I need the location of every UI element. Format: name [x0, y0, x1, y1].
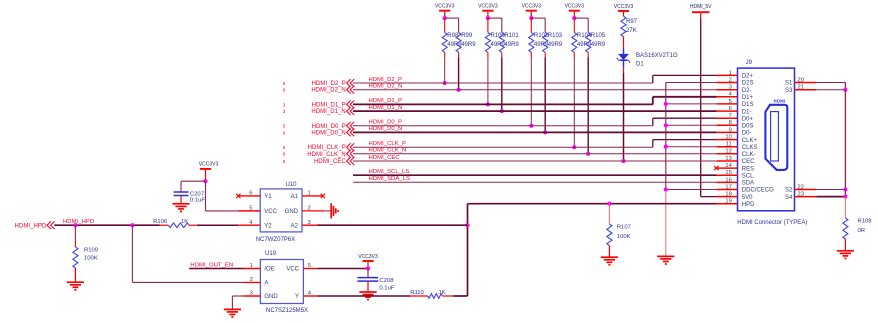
svg-text:NC7SZ125M5X: NC7SZ125M5X [266, 308, 308, 314]
port HDMI_D1_N [283, 107, 354, 115]
svg-text:VCC3V3: VCC3V3 [435, 4, 455, 10]
resistor R107 100K [607, 204, 631, 257]
ground U10 GND [331, 203, 338, 218]
svg-text:SDA: SDA [742, 181, 754, 187]
svg-text:HDMI_D0_N: HDMI_D0_N [369, 126, 403, 132]
wire HDMI_HPD [54, 224, 159, 226]
wire HDMI_D2_N net [353, 89, 717, 91]
junction shield bus pin 5 [664, 102, 668, 106]
svg-text:6: 6 [283, 130, 286, 135]
port HDMI_D1_P [283, 101, 354, 109]
svg-text:CLK+: CLK+ [742, 138, 758, 144]
svg-text:HDMI_CLK_P: HDMI_CLK_P [369, 141, 407, 147]
svg-text:U19: U19 [265, 251, 277, 257]
wire HDMI_CEC net [353, 160, 717, 162]
svg-text:6: 6 [283, 152, 286, 157]
wire HDMI_CLK_N net [353, 153, 717, 155]
svg-text:VCC3V3: VCC3V3 [614, 4, 634, 10]
svg-text:R97: R97 [626, 19, 638, 25]
svg-text:HDMI_SDA_LS: HDMI_SDA_LS [369, 176, 410, 182]
wire U10 GND [302, 210, 331, 212]
wire VCC to C207 [181, 181, 206, 192]
svg-text:/OE: /OE [264, 267, 274, 273]
svg-text:D2-: D2- [742, 88, 752, 94]
wire pin23 [816, 190, 845, 197]
ground R107 [601, 257, 618, 265]
ground R109 [67, 282, 84, 290]
ground shield bus [657, 256, 674, 264]
svg-text:D2S: D2S [742, 81, 754, 87]
junction at top of R98 [443, 16, 447, 20]
junction D1-CEC [621, 159, 625, 163]
wire pin20 to bus [816, 83, 845, 90]
resistor R101 49R9 [499, 33, 519, 112]
svg-text:Y1: Y1 [264, 194, 272, 200]
resistor R109 100K [73, 225, 98, 282]
wire shield bus [666, 83, 717, 257]
svg-text:HDMI_5V: HDMI_5V [690, 4, 712, 10]
no-connect X U10 pin1 [302, 194, 325, 198]
wire U10 A2 out [302, 224, 468, 226]
svg-text:BAS16XV2T1G: BAS16XV2T1G [636, 53, 678, 59]
svg-text:6: 6 [729, 106, 732, 112]
svg-text:18: 18 [725, 192, 731, 198]
net label HDMI_D0_P [369, 120, 403, 126]
wire to U19 A [132, 225, 243, 282]
svg-text:R103: R103 [548, 33, 563, 39]
svg-text:D1+: D1+ [742, 95, 754, 101]
svg-text:3: 3 [283, 109, 286, 114]
svg-text:15: 15 [725, 170, 731, 176]
svg-text:HDMI_SCL_LS: HDMI_SCL_LS [369, 169, 410, 175]
svg-text:3: 3 [283, 102, 286, 107]
svg-text:R109: R109 [84, 247, 98, 253]
junction at top of R102 [529, 16, 533, 20]
svg-text:100K: 100K [617, 234, 631, 240]
svg-text:2: 2 [729, 77, 732, 83]
svg-text:R110: R110 [410, 290, 424, 296]
junction HPD-A2 [465, 223, 469, 227]
svg-text:HDMI_D2_P: HDMI_D2_P [369, 77, 403, 83]
svg-text:VCC3V3: VCC3V3 [478, 4, 498, 10]
svg-text:J9: J9 [746, 60, 753, 66]
svg-text:HDMI_D1_P: HDMI_D1_P [369, 98, 403, 104]
svg-text:17: 17 [725, 184, 731, 190]
svg-text:R107: R107 [617, 224, 631, 230]
svg-text:5: 5 [283, 145, 286, 150]
svg-text:S1: S1 [785, 81, 793, 87]
junction R102 to wire [529, 124, 533, 128]
svg-text:0R: 0R [858, 228, 866, 234]
svg-text:49R9: 49R9 [461, 42, 476, 48]
svg-text:D0-: D0- [742, 131, 752, 137]
wire HPD pin19 net [453, 204, 716, 296]
wire HDMI_5V to pin 18 [701, 19, 717, 197]
wire HDMI_SCL_LS net [353, 174, 717, 176]
resistor R105 49R9 [586, 33, 606, 154]
svg-text:HDMI_D2_N: HDMI_D2_N [369, 84, 403, 90]
svg-text:D0+: D0+ [742, 116, 754, 122]
wire U19 Y out [303, 295, 410, 297]
op-amp U10 NC7WZ07P6X buffer [249, 182, 310, 243]
svg-text:3: 3 [729, 85, 732, 91]
port HDMI_D0_P [283, 122, 354, 130]
junction pin22 [843, 187, 847, 191]
wire pin21 to bus [816, 89, 845, 91]
svg-text:R105: R105 [591, 33, 606, 39]
svg-text:HDMI_CEC: HDMI_CEC [369, 155, 401, 161]
svg-text:49R9: 49R9 [577, 42, 592, 48]
svg-text:5: 5 [283, 124, 286, 129]
svg-text:R106: R106 [153, 219, 168, 225]
svg-text:HDMI_HPD: HDMI_HPD [63, 219, 94, 225]
svg-text:HDMI_D2_P: HDMI_D2_P [312, 81, 346, 87]
svg-text:VCC3V3: VCC3V3 [199, 162, 219, 168]
ground C208 [359, 292, 376, 300]
wire U19 VCC [303, 268, 368, 270]
svg-text:1K: 1K [181, 219, 188, 225]
svg-text:GND: GND [264, 294, 278, 300]
junction shield bus pin 8 [664, 123, 668, 127]
ground U19 [224, 309, 241, 317]
svg-text:49R9: 49R9 [591, 42, 606, 48]
junction at top of R104 [572, 16, 576, 20]
wire R97 to D1 [623, 37, 625, 48]
svg-text:R101: R101 [504, 33, 519, 39]
port HDMI_D2_N [283, 86, 354, 94]
wire U19 GND [232, 296, 260, 309]
wire HDMI_OUT_EN [189, 268, 260, 270]
op-amp U19 NC7SZ125M5X buffer [250, 251, 312, 314]
resistor R98 49R9 [442, 18, 462, 83]
svg-text:SCL: SCL [742, 173, 754, 179]
net label HDMI_HPD [63, 219, 94, 225]
svg-text:9: 9 [729, 127, 732, 133]
svg-text:S4: S4 [785, 195, 793, 201]
wire U19 A stub [244, 281, 261, 283]
wire VCC to U10 pin5 [206, 181, 261, 211]
junction R105 to wire [586, 152, 590, 156]
junction pin23 [843, 195, 847, 199]
net label HDMI_D2_P [369, 77, 403, 83]
power VCC3V3 rail 3 [522, 4, 542, 19]
net label HDMI_SDA_LS [369, 176, 410, 182]
junction VCC-U10 [203, 179, 207, 183]
svg-text:10: 10 [725, 135, 731, 141]
wire bus down right [844, 90, 846, 190]
svg-text:D1: D1 [636, 62, 644, 68]
svg-text:VCC3V3: VCC3V3 [565, 4, 585, 10]
wire HDMI_D1_N net [353, 110, 717, 112]
net label HDMI_OUT_EN [190, 263, 233, 269]
wire VCC to R105 [574, 18, 588, 32]
svg-text:D1S: D1S [742, 102, 754, 108]
junction shield bus pin 11 [664, 145, 668, 149]
svg-text:1: 1 [729, 70, 732, 76]
svg-text:16: 16 [725, 177, 731, 183]
svg-text:C208: C208 [379, 278, 394, 284]
svg-text:21: 21 [798, 85, 804, 91]
resistor R99 49R9 [456, 33, 476, 90]
net label HDMI_CLK_N [369, 148, 407, 154]
power HDMI_5V [690, 4, 712, 19]
no-connect X U10 pin6 [236, 194, 260, 198]
svg-text:49R9: 49R9 [548, 42, 563, 48]
svg-text:HDMI_CEC: HDMI_CEC [314, 159, 346, 165]
junction HPD-R107 [607, 202, 611, 206]
wire HDMI_D0_P net [353, 118, 717, 126]
junction shield bus pin 17 [664, 187, 668, 191]
svg-text:D1-: D1- [742, 109, 752, 115]
net label HDMI_CLK_P [369, 141, 407, 147]
svg-text:49R9: 49R9 [504, 42, 519, 48]
junction at top of R100 [486, 16, 490, 20]
power VCC3V3 U19 [358, 254, 378, 269]
svg-text:7: 7 [729, 113, 732, 119]
hdmi icon [765, 98, 787, 169]
junction R104 to wire [572, 145, 576, 149]
svg-text:HDMI_D2_N: HDMI_D2_N [311, 88, 345, 94]
svg-text:VCC: VCC [286, 267, 299, 273]
svg-text:22: 22 [798, 184, 804, 190]
svg-text:CLK-: CLK- [742, 152, 756, 158]
net label HDMI_D1_P [369, 98, 403, 104]
junction R98 to wire [443, 81, 447, 85]
svg-text:5V0: 5V0 [742, 195, 753, 201]
power VCC3V3 rail 2 [478, 4, 498, 19]
resistor R102 49R9 [529, 18, 549, 126]
svg-text:HDMI_CLK_N: HDMI_CLK_N [369, 148, 407, 154]
svg-text:A: A [264, 281, 268, 287]
power VCC3V3 rail 5 [614, 4, 634, 16]
svg-text:HDMI_HPD: HDMI_HPD [15, 224, 47, 230]
svg-text:20: 20 [798, 77, 804, 83]
svg-text:D2+: D2+ [742, 74, 754, 80]
no-connect X pin 14 [714, 166, 718, 170]
svg-text:5: 5 [249, 206, 252, 212]
junction R100 to wire [486, 102, 490, 106]
wire VCC to R103 [531, 18, 545, 32]
svg-text:49R9: 49R9 [534, 42, 549, 48]
svg-text:12: 12 [725, 149, 731, 155]
wire VCC to R101 [488, 18, 502, 32]
svg-text:HDMI_D1_P: HDMI_D1_P [312, 102, 346, 108]
svg-text:Y2: Y2 [264, 223, 272, 229]
label HDMI Connector (TYPEA) [737, 220, 807, 226]
svg-text:C207: C207 [190, 191, 204, 197]
wire HDMI_D1_P net [353, 97, 717, 105]
svg-text:S2: S2 [785, 188, 793, 194]
svg-text:49R9: 49R9 [447, 42, 462, 48]
port HDMI_CLK_N [283, 150, 354, 158]
svg-text:6: 6 [283, 88, 286, 93]
net label HDMI_CEC [369, 155, 401, 161]
diode D1 BAS16XV2T1G [617, 48, 678, 68]
resistor R100 49R9 [485, 18, 505, 104]
resistor R103 49R9 [543, 33, 563, 133]
junction HPD-R109 [73, 223, 77, 227]
svg-text:1K: 1K [439, 290, 446, 296]
port HDMI_D0_N [283, 129, 354, 137]
capacitor C207 0.1uF [174, 191, 206, 203]
svg-text:19: 19 [725, 199, 731, 205]
svg-text:HDMI Connector (TYPEA): HDMI Connector (TYPEA) [737, 220, 807, 226]
svg-text:100K: 100K [84, 256, 98, 262]
svg-text:R108: R108 [858, 218, 873, 224]
svg-text:A2: A2 [291, 223, 299, 229]
svg-text:A1: A1 [291, 194, 299, 200]
svg-text:R99: R99 [461, 33, 473, 39]
svg-text:HDMI_D1_N: HDMI_D1_N [311, 109, 345, 115]
net label HDMI_D2_N [369, 84, 403, 90]
svg-text:13: 13 [725, 156, 731, 162]
ground R108 [837, 251, 854, 259]
svg-text:S3: S3 [785, 88, 793, 94]
svg-text:49R9: 49R9 [491, 42, 506, 48]
svg-text:HDMI_CLK_N: HDMI_CLK_N [307, 152, 346, 158]
net label HDMI_D0_N [369, 126, 403, 132]
ground C207 [172, 204, 189, 212]
svg-text:HDMI_D0_N: HDMI_D0_N [311, 130, 345, 136]
svg-text:HDMI_D0_P: HDMI_D0_P [369, 120, 403, 126]
junction R103 to wire [543, 130, 547, 134]
svg-text:CLKS: CLKS [742, 145, 758, 151]
junction U19 VCC [366, 266, 370, 270]
wire pin22 [816, 189, 845, 191]
svg-text:5: 5 [283, 81, 286, 86]
power VCC3V3 U10 [199, 162, 219, 182]
svg-text:11: 11 [726, 142, 732, 148]
port HDMI_D2_P [283, 79, 354, 87]
connector J9 HDMI TYPEA [717, 60, 817, 211]
resistor R108 0R [843, 197, 872, 251]
svg-text:0.1uF: 0.1uF [379, 285, 394, 291]
wire HDMI_CLK_P net [353, 140, 717, 148]
wire HDMI_SDA_LS net [353, 181, 717, 183]
svg-text:5: 5 [729, 99, 732, 105]
port HDMI_CLK_P [283, 143, 354, 151]
svg-text:CEC: CEC [742, 159, 755, 165]
junction HPD-U19A [130, 223, 134, 227]
port HDMI_HPD [15, 221, 55, 229]
svg-text:HDMI_D0_P: HDMI_D0_P [312, 124, 346, 130]
capacitor C208 0.1uF [357, 269, 394, 292]
resistor R97 27K [621, 16, 638, 36]
svg-text:27K: 27K [626, 28, 637, 34]
resistor R106 1K [153, 219, 238, 228]
svg-text:D0S: D0S [742, 124, 754, 130]
svg-text:HDMI_CLK_P: HDMI_CLK_P [308, 145, 346, 151]
svg-text:6: 6 [283, 159, 286, 164]
svg-text:VCC: VCC [264, 209, 277, 215]
wire VCC to R99 [445, 18, 459, 32]
svg-text:Y: Y [295, 294, 299, 300]
power VCC3V3 rail 4 [565, 4, 585, 19]
svg-text:RES: RES [742, 166, 754, 172]
svg-text:DDC/CECG: DDC/CECG [742, 188, 774, 194]
resistor R104 49R9 [572, 18, 592, 147]
svg-text:HDMI: HDMI [774, 98, 786, 103]
svg-text:NC7WZ07P6X: NC7WZ07P6X [256, 237, 295, 243]
svg-text:8: 8 [729, 120, 732, 126]
svg-text:HPD: HPD [742, 202, 755, 208]
wire D1 to CEC net [623, 68, 625, 161]
svg-text:14: 14 [725, 163, 732, 169]
net label HDMI_SCL_LS [369, 169, 410, 175]
net label HDMI_D1_N [369, 105, 403, 111]
svg-text:23: 23 [798, 192, 804, 198]
wire HDMI_D2_P net [353, 75, 717, 83]
svg-text:0.1uF: 0.1uF [190, 198, 205, 204]
svg-text:U10: U10 [286, 182, 298, 188]
svg-text:GND: GND [285, 209, 299, 215]
wire HDMI_D0_N net [353, 131, 717, 133]
junction R101 to wire [500, 109, 504, 113]
svg-text:VCC3V3: VCC3V3 [522, 4, 542, 10]
junction R99 to wire [457, 88, 461, 92]
port HDMI_CEC [283, 157, 354, 165]
svg-text:VCC3V3: VCC3V3 [358, 254, 378, 260]
power VCC3V3 rail 1 [435, 4, 455, 19]
junction pin21 [843, 88, 847, 92]
svg-text:HDMI_D1_N: HDMI_D1_N [369, 105, 403, 111]
resistor R110 1K [410, 290, 453, 298]
wire R106 to Y2 [238, 224, 260, 226]
